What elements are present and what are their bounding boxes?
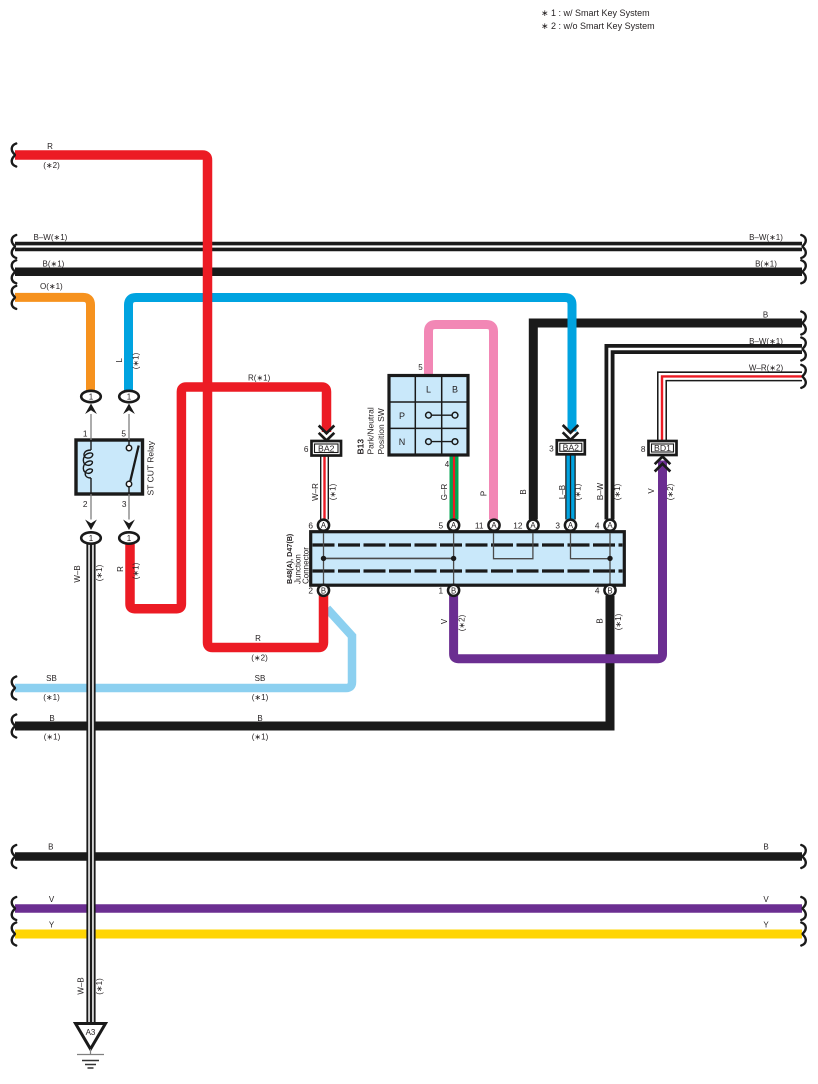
svg-text:(∗1): (∗1) — [95, 978, 104, 995]
svg-text:1: 1 — [89, 534, 94, 543]
svg-text:BA2: BA2 — [318, 443, 335, 453]
svg-text:B–W(∗1): B–W(∗1) — [34, 233, 68, 242]
svg-text:R: R — [47, 142, 53, 151]
svg-text:N: N — [399, 437, 406, 447]
svg-text:B: B — [763, 843, 768, 852]
svg-text:A: A — [491, 521, 497, 530]
svg-text:(∗1): (∗1) — [613, 483, 622, 500]
svg-text:O(∗1): O(∗1) — [40, 282, 63, 291]
svg-text:Park/Neutral: Park/Neutral — [366, 407, 376, 454]
svg-text:B: B — [452, 385, 458, 395]
svg-text:4: 4 — [595, 521, 600, 531]
svg-text:3: 3 — [122, 499, 127, 509]
svg-text:SB: SB — [46, 674, 57, 683]
svg-text:1: 1 — [127, 534, 132, 543]
svg-text:1: 1 — [89, 392, 94, 401]
svg-text:W–R: W–R — [311, 483, 320, 501]
svg-text:BD1: BD1 — [654, 443, 671, 453]
svg-text:B: B — [321, 586, 326, 595]
svg-text:1: 1 — [127, 392, 132, 401]
svg-text:(∗1): (∗1) — [252, 732, 269, 741]
svg-text:1: 1 — [438, 586, 443, 596]
svg-text:(∗1): (∗1) — [329, 483, 338, 500]
svg-text:1: 1 — [83, 429, 88, 439]
svg-text:3: 3 — [555, 521, 560, 531]
svg-text:SB: SB — [255, 674, 266, 683]
svg-text:B: B — [596, 618, 605, 623]
svg-text:B: B — [49, 714, 54, 723]
svg-text:(∗2): (∗2) — [458, 614, 467, 631]
svg-text:(∗1): (∗1) — [44, 732, 61, 741]
svg-text:V: V — [49, 895, 55, 904]
svg-text:A: A — [607, 521, 613, 530]
svg-text:6: 6 — [308, 521, 313, 531]
svg-text:A: A — [451, 521, 457, 530]
svg-text:R(∗1): R(∗1) — [248, 373, 271, 382]
svg-text:L–B: L–B — [558, 485, 567, 499]
svg-text:A: A — [568, 521, 574, 530]
svg-text:W–R(∗2): W–R(∗2) — [749, 364, 784, 373]
svg-text:W–B: W–B — [73, 565, 82, 582]
svg-text:5: 5 — [121, 429, 126, 439]
svg-text:12: 12 — [513, 521, 523, 531]
svg-text:R: R — [116, 566, 125, 572]
svg-text:Position SW: Position SW — [376, 408, 386, 454]
svg-text:B: B — [763, 310, 768, 319]
svg-text:(∗1): (∗1) — [252, 693, 269, 702]
svg-text:B: B — [607, 586, 612, 595]
svg-text:A: A — [321, 521, 327, 530]
svg-text:V: V — [440, 618, 449, 624]
svg-text:(∗1): (∗1) — [131, 352, 140, 369]
svg-text:8: 8 — [641, 444, 646, 454]
svg-text:(∗2): (∗2) — [251, 654, 268, 663]
svg-text:Connector: Connector — [302, 547, 311, 584]
svg-text:W–B: W–B — [77, 977, 86, 994]
svg-text:3: 3 — [549, 443, 554, 453]
svg-text:∗ 2 : w/o Smart Key System: ∗ 2 : w/o Smart Key System — [541, 21, 655, 31]
svg-text:V: V — [647, 488, 656, 494]
svg-text:(∗2): (∗2) — [43, 161, 60, 170]
svg-text:4: 4 — [595, 586, 600, 596]
svg-text:∗ 1 : w/ Smart Key System: ∗ 1 : w/ Smart Key System — [541, 8, 650, 18]
svg-text:B(∗1): B(∗1) — [755, 260, 777, 269]
svg-text:P: P — [399, 411, 405, 421]
svg-text:L: L — [115, 358, 124, 363]
svg-text:B13: B13 — [356, 439, 366, 455]
svg-text:B–W: B–W — [596, 482, 605, 500]
svg-text:V: V — [763, 895, 769, 904]
svg-text:5: 5 — [418, 363, 423, 372]
svg-text:(∗1): (∗1) — [614, 613, 623, 630]
svg-text:5: 5 — [438, 521, 443, 531]
svg-text:A: A — [530, 521, 536, 530]
svg-text:L: L — [426, 385, 431, 395]
svg-text:A3: A3 — [86, 1028, 96, 1037]
svg-text:Y: Y — [49, 921, 55, 930]
svg-text:(∗2): (∗2) — [666, 483, 675, 500]
svg-text:ST CUT Relay: ST CUT Relay — [146, 440, 156, 495]
svg-text:BA2: BA2 — [563, 443, 580, 453]
svg-text:4: 4 — [445, 460, 450, 469]
svg-text:G–R: G–R — [440, 484, 449, 501]
svg-text:B: B — [451, 586, 456, 595]
svg-text:2: 2 — [308, 586, 313, 596]
svg-text:(∗1): (∗1) — [132, 562, 141, 579]
svg-text:B: B — [257, 714, 262, 723]
svg-text:(∗1): (∗1) — [574, 483, 583, 500]
svg-text:(∗1): (∗1) — [43, 693, 60, 702]
svg-text:(∗1): (∗1) — [95, 564, 104, 581]
svg-text:11: 11 — [475, 521, 484, 531]
svg-text:6: 6 — [304, 444, 309, 454]
svg-text:B–W(∗1): B–W(∗1) — [749, 337, 783, 346]
svg-text:B(∗1): B(∗1) — [43, 259, 65, 268]
svg-text:B: B — [519, 489, 528, 494]
svg-text:R: R — [255, 634, 261, 643]
svg-text:P: P — [480, 491, 489, 496]
svg-text:Y: Y — [763, 921, 769, 930]
svg-text:B: B — [48, 843, 53, 852]
svg-text:2: 2 — [83, 499, 88, 509]
svg-text:B–W(∗1): B–W(∗1) — [749, 233, 783, 242]
